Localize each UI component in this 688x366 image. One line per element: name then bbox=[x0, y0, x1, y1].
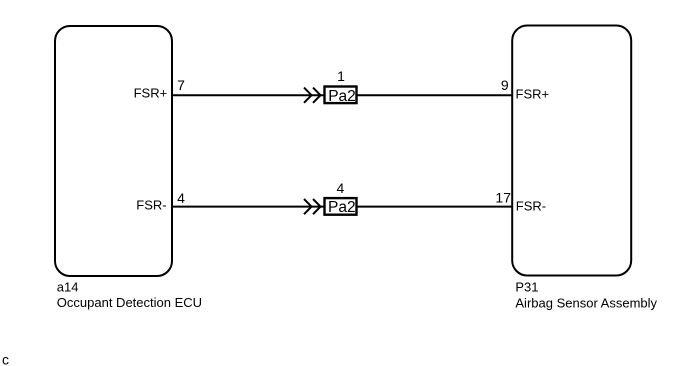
svg-text:4: 4 bbox=[337, 180, 345, 196]
connector chevrons wire FSR- bbox=[304, 199, 312, 214]
svg-text:17: 17 bbox=[495, 190, 511, 206]
svg-text:7: 7 bbox=[177, 77, 185, 93]
wire FSR- left segment bbox=[173, 206, 324, 208]
svg-text:9: 9 bbox=[501, 77, 509, 93]
sensor block P31 (Airbag Sensor Assembly) bbox=[512, 26, 631, 276]
svg-text:Pa2: Pa2 bbox=[328, 88, 356, 105]
svg-text:Occupant Detection ECU: Occupant Detection ECU bbox=[57, 295, 202, 310]
ECU block a14 (Occupant Detection ECU) bbox=[55, 26, 172, 276]
svg-text:FSR+: FSR+ bbox=[516, 87, 550, 102]
svg-text:a14: a14 bbox=[57, 280, 79, 295]
connector box Pa2 on wire FSR- bbox=[325, 198, 357, 215]
svg-text:FSR-: FSR- bbox=[516, 199, 546, 214]
wire FSR+ left segment bbox=[173, 94, 324, 96]
svg-text:FSR+: FSR+ bbox=[134, 86, 168, 101]
wire FSR+ right segment bbox=[358, 94, 513, 96]
svg-text:c: c bbox=[2, 351, 9, 366]
svg-text:4: 4 bbox=[177, 190, 185, 206]
svg-text:Pa2: Pa2 bbox=[328, 199, 356, 216]
svg-text:P31: P31 bbox=[515, 280, 538, 295]
svg-text:Airbag Sensor Assembly: Airbag Sensor Assembly bbox=[515, 296, 657, 311]
svg-text:1: 1 bbox=[337, 68, 345, 84]
connector box Pa2 on wire FSR+ bbox=[325, 87, 357, 104]
connector chevrons wire FSR+ bbox=[304, 88, 312, 103]
wire FSR- right segment bbox=[358, 206, 513, 208]
svg-text:FSR-: FSR- bbox=[136, 198, 166, 213]
